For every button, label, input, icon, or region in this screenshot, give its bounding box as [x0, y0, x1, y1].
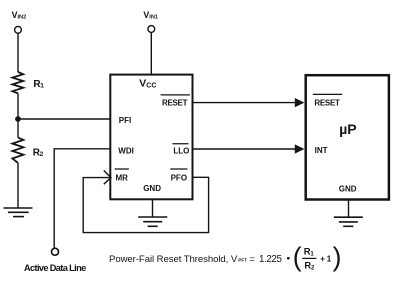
svg-text:LLO: LLO — [173, 146, 189, 155]
node Active Data Line terminal — [52, 248, 59, 255]
node junction dot — [15, 116, 21, 122]
svg-text:(: ( — [293, 242, 302, 272]
svg-text:PFI: PFI — [119, 116, 131, 125]
pin label LLO — [172, 144, 189, 156]
wire VIN1 to VCC — [150, 33, 152, 75]
svg-text:+ 1: + 1 — [320, 254, 332, 263]
svg-text:1.225: 1.225 — [259, 254, 282, 265]
wire node to PFI — [18, 118, 110, 120]
svg-text:Active Data Line: Active Data Line — [24, 263, 86, 273]
IC U1 body — [110, 75, 192, 200]
ground GND3 under U2 — [334, 217, 363, 226]
formula fraction R1 over R2 — [302, 245, 316, 271]
svg-text:V: V — [139, 78, 146, 89]
svg-text:): ) — [333, 242, 342, 272]
formula text — [109, 254, 290, 265]
wire VIN2 to R1 — [17, 33, 19, 72]
wire LLO to INT — [193, 148, 298, 150]
wire U2 GND to ground — [348, 200, 350, 218]
svg-text:2: 2 — [311, 266, 315, 272]
node VIN2 terminal — [15, 26, 22, 33]
wire WDI — [54, 149, 110, 248]
pin label RESET U1 — [161, 95, 190, 108]
svg-text:RESET: RESET — [162, 99, 188, 108]
svg-text:1: 1 — [40, 83, 44, 90]
pin label PFO — [170, 169, 187, 182]
resistor R2 — [12, 138, 23, 163]
svg-text:WDI: WDI — [118, 146, 134, 155]
wire U1 GND to ground — [152, 199, 154, 217]
arrow INT into uP — [295, 144, 305, 153]
node VIN1 terminal — [148, 26, 155, 33]
svg-text:Power-Fail Reset Threshold, V: Power-Fail Reset Threshold, V — [109, 254, 238, 265]
svg-text:2: 2 — [40, 151, 44, 158]
label R2 — [33, 147, 44, 158]
svg-text:RESET: RESET — [314, 98, 340, 107]
arrow open into MR — [104, 171, 111, 185]
svg-text:INT: INT — [315, 146, 328, 155]
svg-text:=: = — [249, 254, 255, 265]
svg-text:IN1: IN1 — [149, 15, 158, 21]
pin label VCC — [139, 78, 156, 89]
node VIN1 label — [143, 10, 158, 21]
pin label RESET U2 — [313, 94, 342, 107]
svg-text:GND: GND — [339, 185, 357, 194]
svg-text:1: 1 — [310, 251, 314, 257]
wire PFO feedback loop — [83, 177, 208, 232]
svg-text:µP: µP — [339, 121, 356, 137]
arrow RESET into uP — [295, 98, 305, 107]
wire R1 to R2 through node — [17, 93, 19, 137]
ground GND1 — [4, 208, 33, 217]
microprocessor U2 body — [306, 75, 389, 199]
svg-text:MR: MR — [116, 173, 129, 182]
svg-text:PFO: PFO — [171, 173, 187, 182]
wire R2 to ground — [17, 163, 19, 208]
ground GND2 under U1 — [138, 217, 167, 226]
svg-text:PFT: PFT — [238, 258, 247, 263]
label R1 — [33, 79, 44, 90]
pin label MR — [115, 169, 129, 182]
svg-text:CC: CC — [146, 82, 156, 89]
svg-text:GND: GND — [143, 184, 161, 193]
svg-text:IN2: IN2 — [18, 15, 27, 21]
wire RESET to uP — [193, 102, 298, 104]
node VIN2 label — [12, 10, 27, 21]
resistor R1 — [12, 72, 23, 93]
